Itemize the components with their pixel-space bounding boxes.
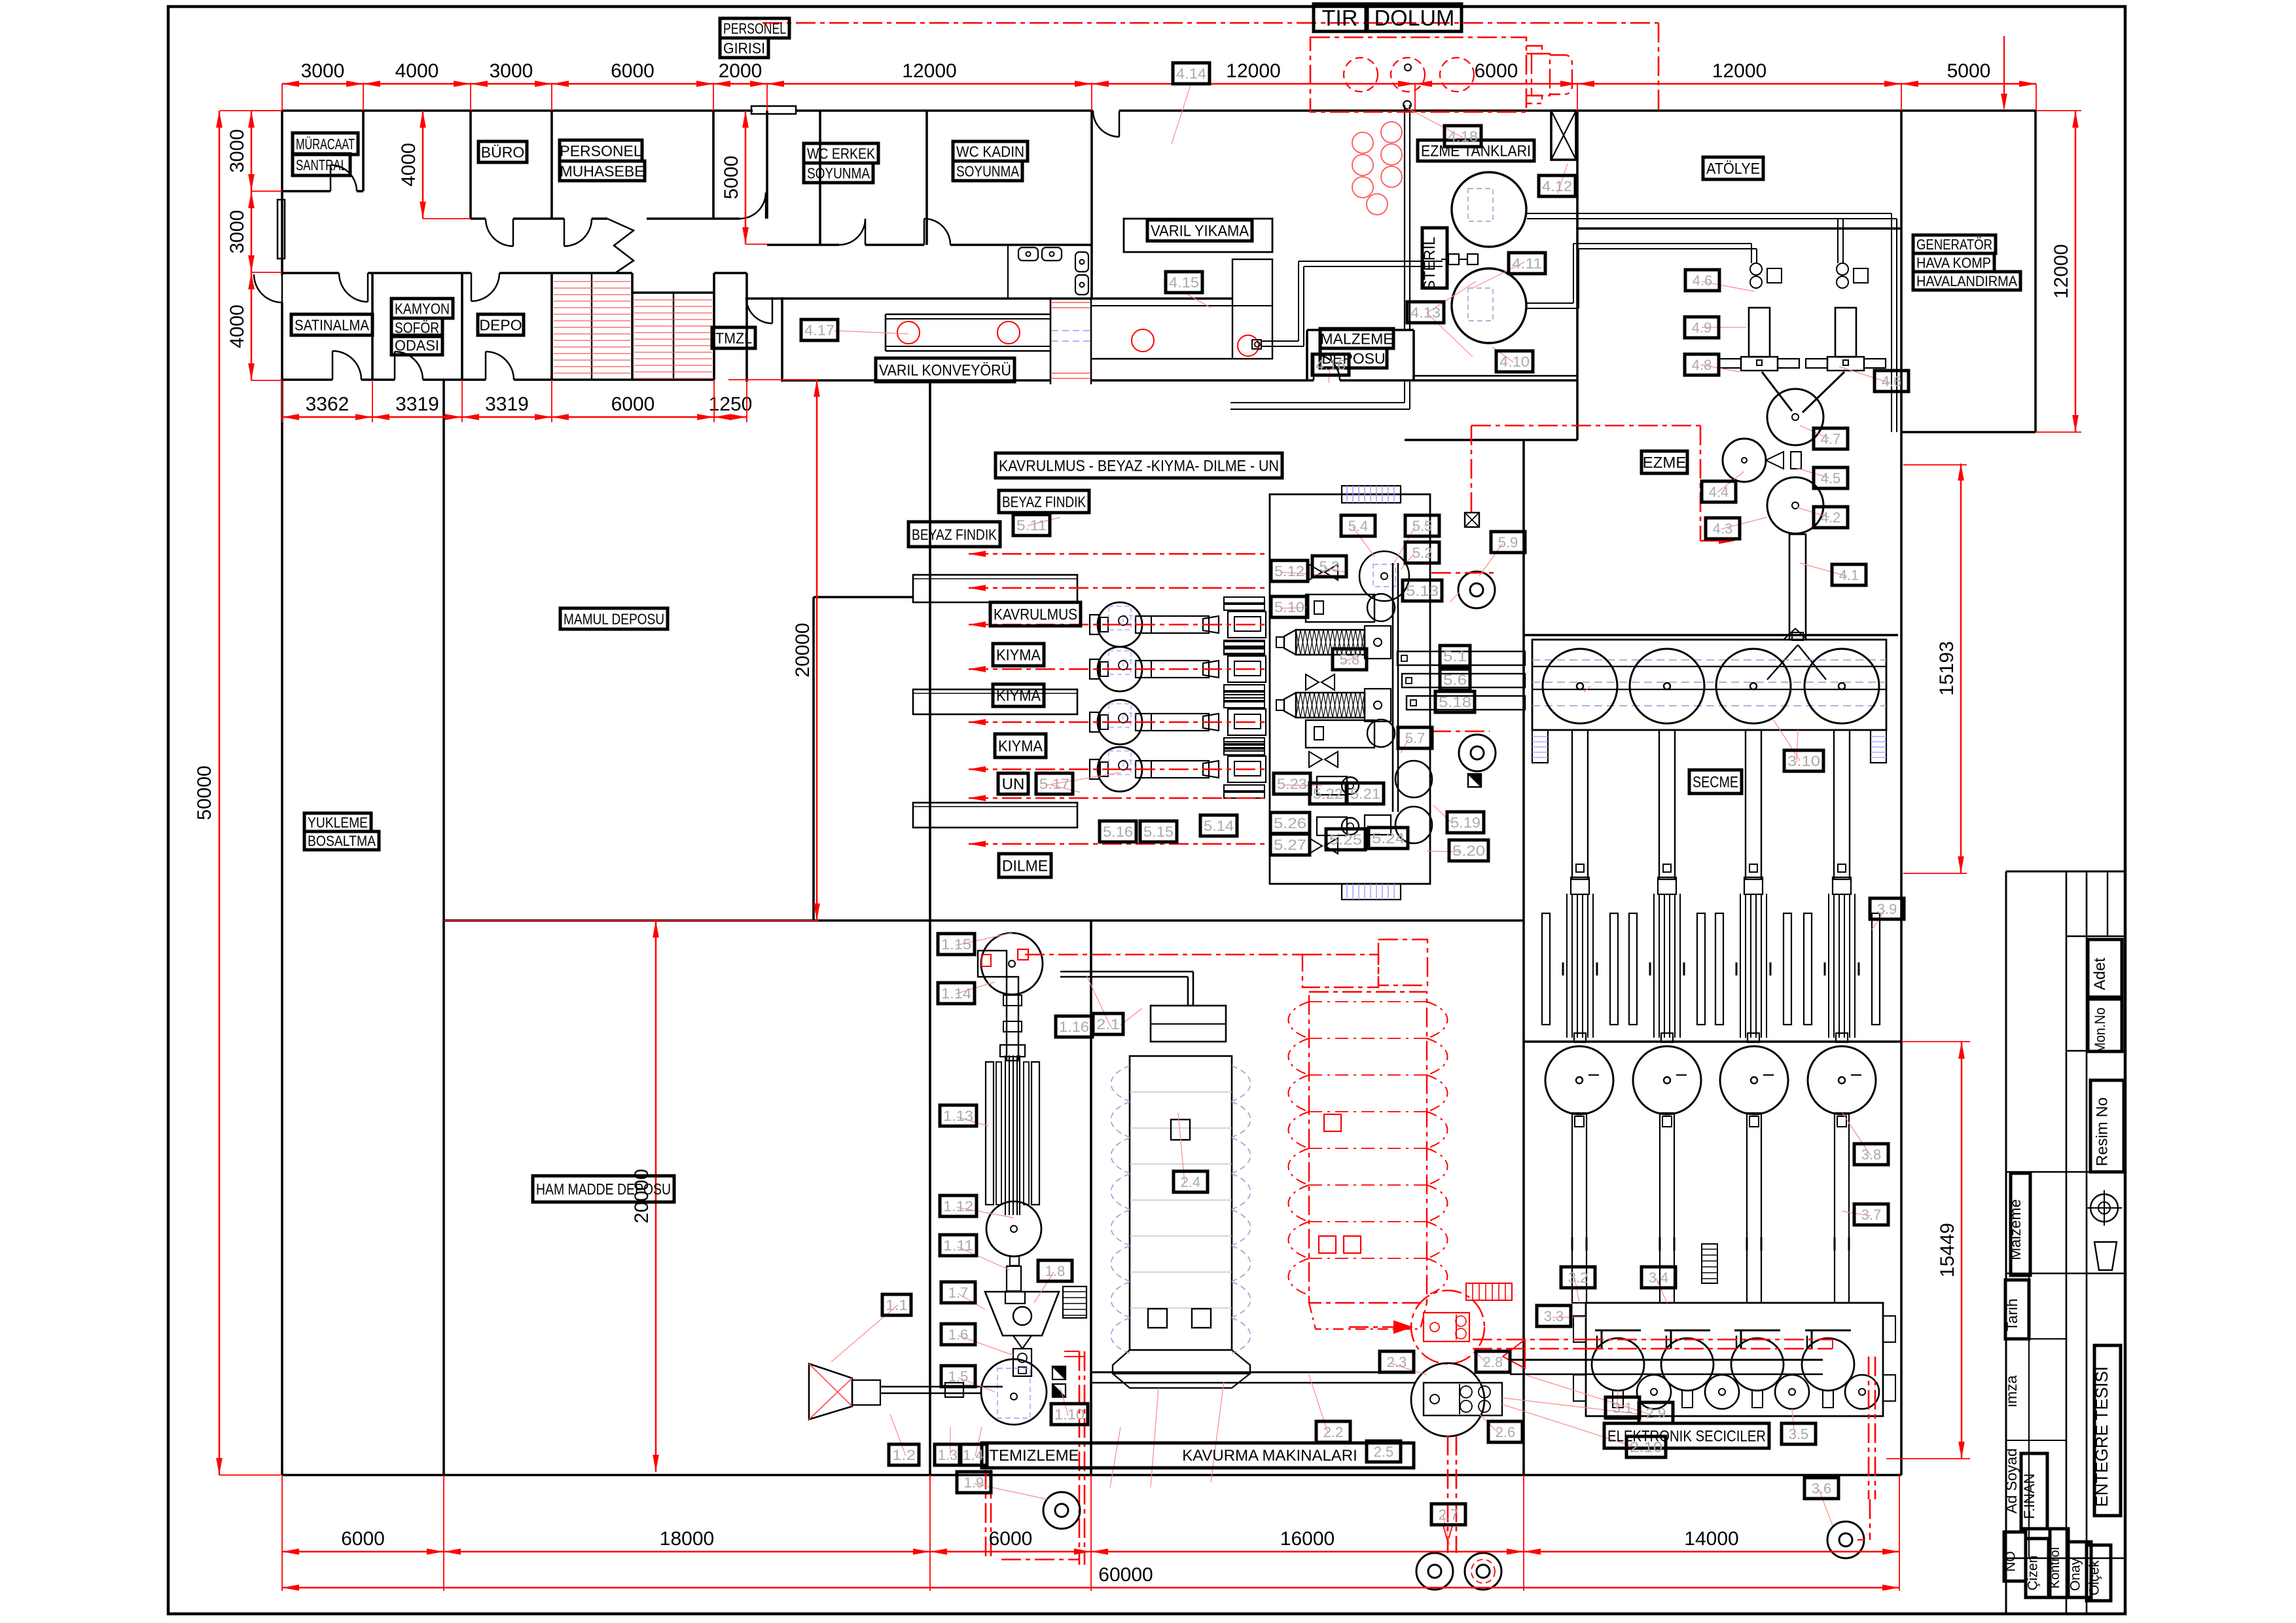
svg-text:1.8: 1.8	[1045, 1263, 1066, 1279]
svg-text:3000: 3000	[226, 210, 248, 254]
svg-text:BÜRO: BÜRO	[481, 143, 524, 160]
svg-text:5.19: 5.19	[1450, 814, 1480, 831]
svg-text:EZME: EZME	[1643, 454, 1687, 472]
svg-text:2.5: 2.5	[1374, 1444, 1394, 1460]
svg-text:15193: 15193	[1936, 641, 1958, 695]
svg-text:GENERATÖR: GENERATÖR	[1916, 236, 1992, 253]
svg-text:3.9: 3.9	[1877, 901, 1897, 917]
svg-text:1.6: 1.6	[948, 1326, 969, 1343]
svg-text:3000: 3000	[301, 60, 345, 82]
svg-text:16000: 16000	[1280, 1528, 1335, 1550]
svg-text:5.26: 5.26	[1274, 815, 1306, 831]
svg-text:HAVA KOMP: HAVA KOMP	[1916, 255, 1991, 271]
svg-text:SECME: SECME	[1693, 774, 1738, 792]
svg-text:6000: 6000	[611, 393, 655, 415]
svg-text:4.7: 4.7	[1821, 431, 1841, 447]
svg-text:5.27: 5.27	[1274, 837, 1306, 853]
svg-text:3.6: 3.6	[1812, 1480, 1832, 1497]
svg-text:2.8: 2.8	[1483, 1354, 1503, 1370]
svg-text:5000: 5000	[721, 156, 742, 200]
svg-text:HAVALANDIRMA: HAVALANDIRMA	[1916, 273, 2017, 289]
svg-text:BEYAZ FINDIK: BEYAZ FINDIK	[1002, 493, 1086, 510]
svg-text:2000: 2000	[719, 60, 762, 82]
svg-text:imza: imza	[2003, 1376, 2020, 1408]
svg-text:2.9: 2.9	[1646, 1405, 1666, 1421]
svg-text:2.7: 2.7	[1439, 1506, 1459, 1523]
svg-text:4.6: 4.6	[1882, 373, 1902, 390]
svg-text:5.18: 5.18	[1439, 694, 1471, 710]
svg-text:5.9: 5.9	[1498, 534, 1518, 551]
svg-text:4.12: 4.12	[1542, 178, 1572, 194]
svg-text:4.9: 4.9	[1692, 319, 1712, 336]
svg-text:YUKLEME: YUKLEME	[308, 814, 368, 831]
svg-text:5.11: 5.11	[1016, 517, 1047, 534]
svg-text:4.1: 4.1	[1839, 567, 1859, 583]
svg-text:TEMIZLEME: TEMIZLEME	[989, 1447, 1079, 1465]
svg-text:3.2: 3.2	[1568, 1269, 1588, 1286]
svg-text:4.8: 4.8	[1692, 357, 1712, 373]
svg-text:1.3: 1.3	[938, 1447, 958, 1463]
svg-text:5.20: 5.20	[1452, 843, 1485, 859]
svg-text:ENTEGRE TESISI: ENTEGRE TESISI	[2092, 1366, 2111, 1507]
svg-text:4000: 4000	[226, 304, 248, 348]
svg-text:Çizen: Çizen	[2026, 1556, 2041, 1591]
svg-text:6000: 6000	[989, 1528, 1033, 1550]
svg-text:Onay: Onay	[2068, 1558, 2083, 1591]
svg-text:STERIL: STERIL	[1421, 237, 1439, 291]
svg-text:KIYMA: KIYMA	[996, 647, 1041, 665]
svg-text:KAMYON: KAMYON	[395, 300, 450, 317]
svg-text:4000: 4000	[398, 143, 420, 187]
svg-text:12000: 12000	[1226, 60, 1280, 82]
svg-text:KAVRULMUS: KAVRULMUS	[994, 606, 1077, 624]
svg-text:3.1: 3.1	[1613, 1400, 1633, 1416]
svg-text:3319: 3319	[395, 393, 439, 415]
svg-text:WC KADIN: WC KADIN	[956, 143, 1024, 160]
svg-text:Adet: Adet	[2091, 958, 2109, 991]
svg-text:3319: 3319	[485, 393, 529, 415]
svg-text:6000: 6000	[341, 1528, 385, 1550]
svg-text:KIYMA: KIYMA	[996, 687, 1041, 705]
svg-text:2.1: 2.1	[1096, 1016, 1120, 1032]
svg-text:1.16: 1.16	[1059, 1019, 1089, 1035]
svg-text:5.15: 5.15	[1143, 824, 1174, 840]
svg-text:PERSONEL: PERSONEL	[560, 142, 641, 159]
svg-text:6000: 6000	[1475, 60, 1518, 82]
svg-text:4.16: 4.16	[1316, 357, 1346, 373]
svg-text:5000: 5000	[1947, 60, 1991, 82]
svg-text:4.18: 4.18	[1448, 128, 1478, 145]
svg-text:2.2: 2.2	[1323, 1424, 1344, 1440]
svg-text:5.8: 5.8	[1340, 651, 1360, 668]
svg-text:5.4: 5.4	[1348, 518, 1369, 534]
svg-text:12000: 12000	[2051, 244, 2072, 299]
svg-text:MUHASEBE: MUHASEBE	[560, 162, 644, 179]
svg-text:5.13: 5.13	[1406, 583, 1439, 599]
svg-text:DOLUM: DOLUM	[1374, 6, 1455, 31]
svg-text:5.23: 5.23	[1277, 776, 1307, 792]
svg-text:12000: 12000	[1712, 60, 1767, 82]
svg-text:1250: 1250	[709, 393, 753, 415]
svg-text:1.15: 1.15	[941, 936, 971, 953]
svg-text:F.INAN: F.INAN	[2021, 1474, 2037, 1520]
svg-text:KAVRULMUS - BEYAZ -KIYMA- DILM: KAVRULMUS - BEYAZ -KIYMA- DILME - UN	[999, 458, 1279, 475]
svg-text:5.16: 5.16	[1103, 824, 1133, 840]
svg-text:3.8: 3.8	[1861, 1146, 1882, 1163]
svg-text:14000: 14000	[1684, 1528, 1738, 1550]
svg-text:Mon.No: Mon.No	[2092, 1008, 2108, 1053]
svg-text:3000: 3000	[226, 129, 248, 173]
svg-text:5.10: 5.10	[1274, 599, 1304, 615]
svg-text:4.13: 4.13	[1410, 304, 1441, 321]
svg-text:4.6: 4.6	[1693, 272, 1713, 289]
svg-text:5.5: 5.5	[1412, 518, 1433, 534]
svg-text:TIR: TIR	[1322, 6, 1358, 31]
svg-text:Ölçek: Ölçek	[2087, 1560, 2102, 1596]
svg-text:5.17: 5.17	[1039, 776, 1069, 792]
svg-text:1.4: 1.4	[963, 1447, 984, 1463]
svg-text:3.5: 3.5	[1789, 1426, 1809, 1442]
svg-text:ATÖLYE: ATÖLYE	[1706, 160, 1760, 178]
svg-text:1.1: 1.1	[886, 1297, 908, 1313]
svg-text:1.11: 1.11	[943, 1237, 973, 1254]
svg-text:1.12: 1.12	[943, 1198, 973, 1214]
svg-text:SOFÖR: SOFÖR	[395, 319, 439, 336]
svg-text:SOYUNMA: SOYUNMA	[956, 162, 1020, 179]
svg-text:GIRISI: GIRISI	[723, 39, 765, 56]
svg-text:1.2: 1.2	[892, 1447, 916, 1463]
svg-text:4.11: 4.11	[1512, 255, 1542, 272]
svg-text:1.14: 1.14	[941, 985, 971, 1002]
svg-text:12000: 12000	[902, 60, 956, 82]
svg-text:4000: 4000	[395, 60, 439, 82]
svg-text:50000: 50000	[194, 765, 215, 820]
svg-text:5.25: 5.25	[1329, 831, 1362, 848]
svg-text:KIYMA: KIYMA	[998, 738, 1043, 756]
svg-text:5.3: 5.3	[1319, 558, 1340, 575]
svg-text:3362: 3362	[306, 393, 350, 415]
svg-text:4.3: 4.3	[1713, 520, 1733, 537]
svg-text:2.6: 2.6	[1496, 1424, 1516, 1440]
svg-text:BEYAZ FINDIK: BEYAZ FINDIK	[912, 526, 997, 543]
svg-text:5.7: 5.7	[1405, 730, 1426, 746]
svg-text:5.1: 5.1	[1443, 648, 1467, 665]
svg-text:HAM MADDE DEPOSU: HAM MADDE DEPOSU	[536, 1181, 671, 1199]
svg-text:1.9: 1.9	[964, 1474, 984, 1491]
svg-text:5.6: 5.6	[1443, 672, 1467, 688]
svg-text:1.13: 1.13	[943, 1108, 973, 1124]
svg-text:DEPO: DEPO	[479, 316, 522, 333]
svg-text:Resim No: Resim No	[2094, 1097, 2111, 1166]
svg-text:18000: 18000	[660, 1528, 714, 1550]
svg-text:2.3: 2.3	[1387, 1354, 1407, 1370]
svg-text:4.5: 4.5	[1821, 470, 1841, 486]
svg-text:2.10: 2.10	[1630, 1439, 1662, 1455]
svg-text:4.15: 4.15	[1169, 274, 1199, 291]
svg-text:PERSONEL: PERSONEL	[723, 20, 786, 37]
svg-text:5.24: 5.24	[1372, 830, 1405, 847]
svg-text:3.3: 3.3	[1544, 1308, 1564, 1324]
svg-text:15449: 15449	[1937, 1223, 1958, 1277]
svg-text:SANTRAL: SANTRAL	[296, 156, 347, 173]
svg-text:Tarih: Tarih	[2003, 1298, 2020, 1331]
svg-text:5.2: 5.2	[1412, 545, 1433, 561]
svg-text:1.10: 1.10	[1054, 1406, 1085, 1423]
svg-text:3000: 3000	[490, 60, 533, 82]
svg-text:20000: 20000	[792, 623, 814, 677]
svg-text:3.4: 3.4	[1649, 1269, 1669, 1286]
svg-text:MALZEME: MALZEME	[1320, 330, 1393, 347]
svg-text:WC ERKEK: WC ERKEK	[807, 145, 876, 162]
svg-text:4.10: 4.10	[1499, 354, 1530, 370]
svg-text:4.2: 4.2	[1821, 509, 1841, 526]
svg-text:ODASI: ODASI	[395, 337, 439, 354]
svg-text:KAVURMA MAKINALARI: KAVURMA MAKINALARI	[1182, 1447, 1357, 1465]
svg-text:1.5: 1.5	[948, 1368, 969, 1385]
svg-text:4.14: 4.14	[1176, 65, 1206, 82]
svg-text:1.7: 1.7	[948, 1285, 969, 1301]
svg-text:SOYUNMA: SOYUNMA	[807, 164, 870, 181]
svg-text:5.14: 5.14	[1204, 818, 1234, 834]
svg-text:2.4: 2.4	[1181, 1174, 1201, 1190]
svg-text:DILME: DILME	[1002, 858, 1048, 875]
svg-text:MÜRACAAT: MÜRACAAT	[296, 136, 355, 153]
svg-text:NO: NO	[2003, 1551, 2018, 1572]
svg-text:SATINALMA: SATINALMA	[295, 316, 370, 333]
svg-text:4.17: 4.17	[804, 322, 834, 338]
svg-text:5.21: 5.21	[1350, 786, 1380, 802]
svg-text:6000: 6000	[611, 60, 655, 82]
svg-text:60000: 60000	[1098, 1564, 1153, 1586]
svg-text:Kontrol: Kontrol	[2048, 1547, 2062, 1588]
svg-text:UN: UN	[1002, 776, 1025, 793]
svg-text:5.12: 5.12	[1274, 563, 1304, 579]
svg-text:5.22: 5.22	[1313, 786, 1343, 802]
svg-text:Malzeme: Malzeme	[2007, 1199, 2024, 1260]
svg-text:TMZL: TMZL	[715, 329, 752, 346]
svg-text:VARIL YIKAMA: VARIL YIKAMA	[1151, 223, 1249, 240]
svg-text:Ad Soyad: Ad Soyad	[2003, 1448, 2020, 1514]
svg-text:3.10: 3.10	[1787, 753, 1820, 769]
svg-text:4.4: 4.4	[1709, 484, 1729, 500]
svg-text:3.7: 3.7	[1861, 1207, 1882, 1223]
svg-text:BOSALTMA: BOSALTMA	[308, 833, 376, 849]
svg-text:MAMUL DEPOSU: MAMUL DEPOSU	[564, 610, 664, 627]
svg-text:VARIL KONVEYÖRÜ: VARIL KONVEYÖRÜ	[879, 362, 1011, 380]
